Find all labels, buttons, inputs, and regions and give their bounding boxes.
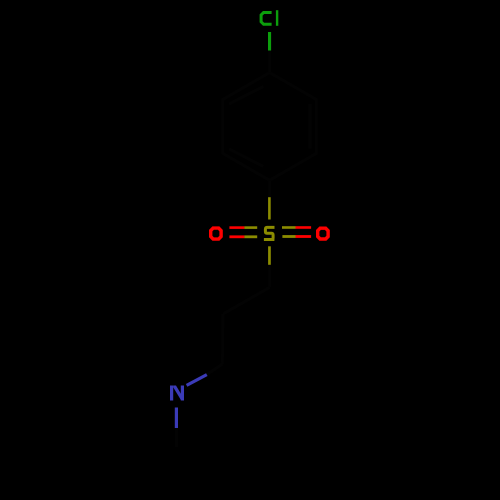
S=O double bond right (olive half + red half) <box>282 226 296 229</box>
S=O double bond left (red half + olive half) <box>229 226 244 229</box>
atom label N (nitrogen) <box>170 386 184 401</box>
wire: black half of S-CH2 bond <box>268 265 271 288</box>
wire: black half of Cl bond <box>268 51 271 73</box>
wire: olive half of ring-S bond <box>268 197 271 219</box>
wire: black half of N-CH3 bond <box>175 428 178 447</box>
wire: black half of CH2-N bond <box>207 364 223 375</box>
atom label O (left oxygen) <box>209 226 223 240</box>
atom label S (sulfur) <box>264 227 275 239</box>
atom label Cl (chlorine) <box>261 10 277 26</box>
wire: blue half of CH2-N bond <box>187 375 207 386</box>
atom label O (right oxygen) <box>316 227 330 241</box>
wire: black half of ring-S bond <box>268 180 271 197</box>
benzene ring (carbon skeleton, near-invisible) <box>223 73 316 181</box>
wire: CH2-CH2 bond 2 <box>221 314 225 364</box>
wire: blue half of N-CH3 bond <box>175 408 178 429</box>
wire: CH2-CH2 bond <box>223 287 270 314</box>
wire: olive half of S-CH2 bond <box>268 246 271 264</box>
wire: green half of Cl bond <box>268 32 271 51</box>
